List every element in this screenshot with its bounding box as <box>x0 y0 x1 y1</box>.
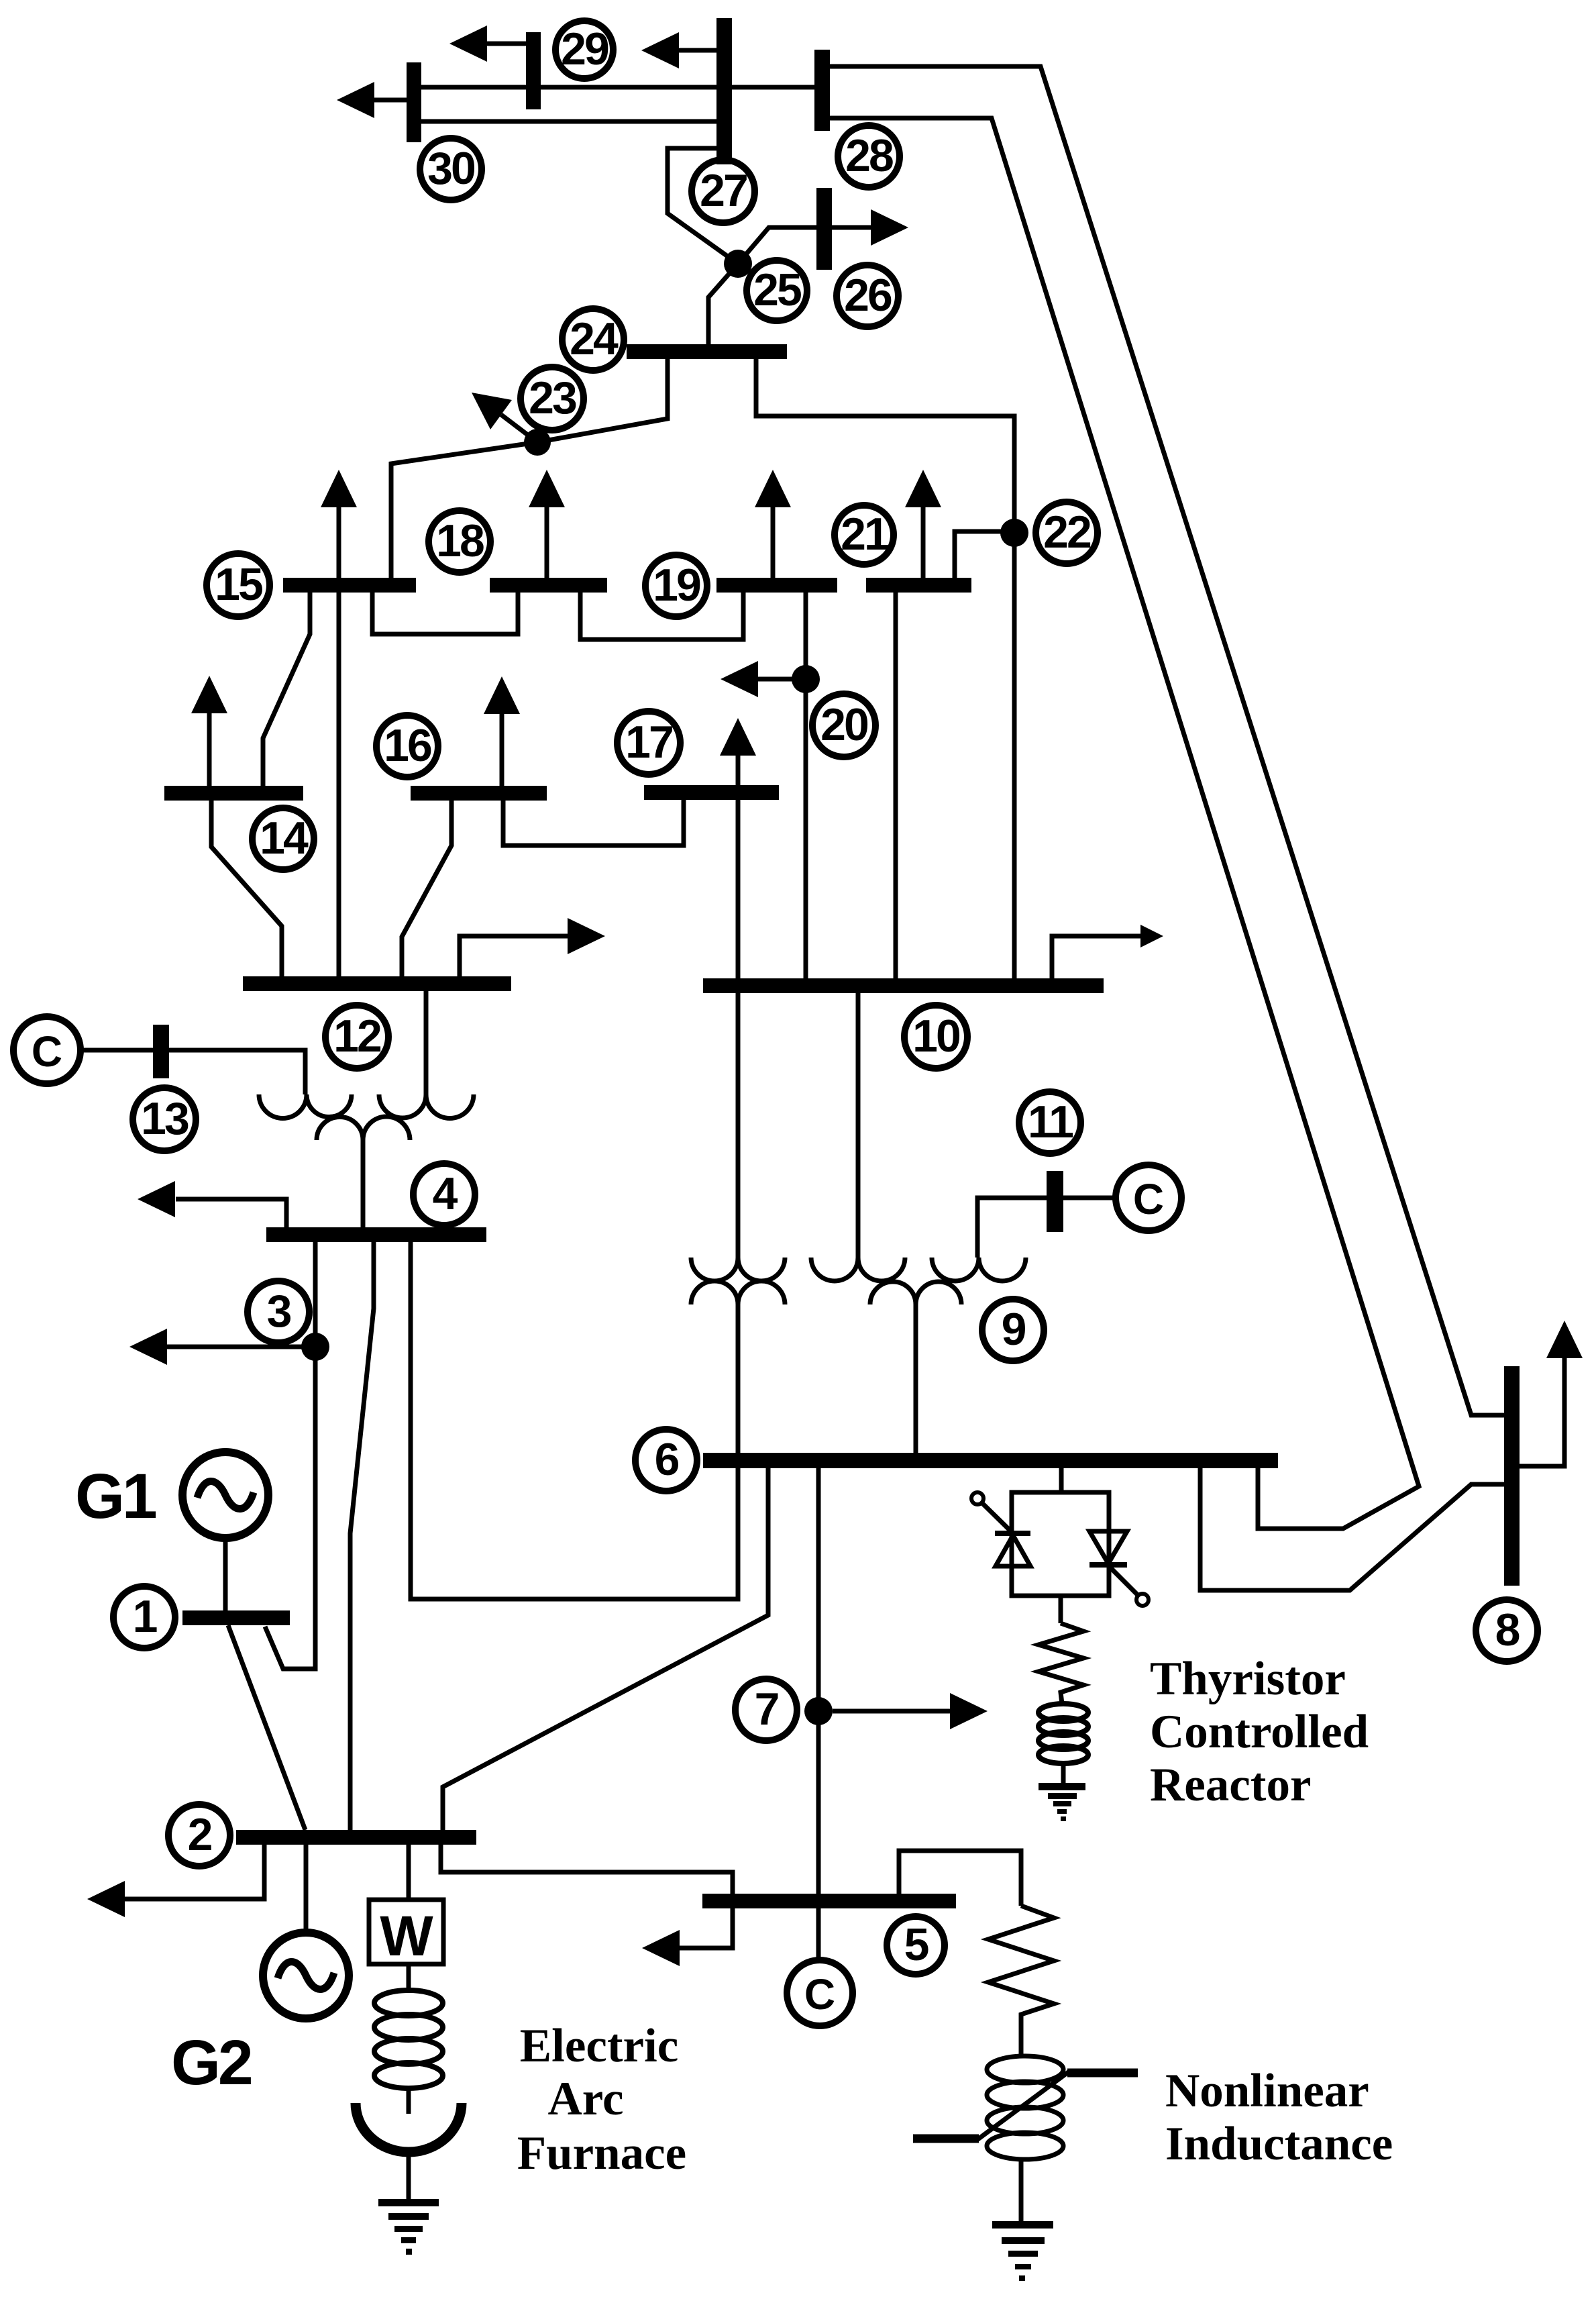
transformer T12 top-left winding <box>259 1094 352 1119</box>
NL coil (nonlinear inductance) <box>987 2056 1063 2083</box>
svg-text:G1: G1 <box>75 1461 156 1532</box>
capacitor plate 13 <box>153 1025 169 1078</box>
capacitor 11 branch <box>977 1198 1047 1258</box>
wire 30-27 line <box>421 119 717 124</box>
node 25 <box>724 250 752 278</box>
node label 2 <box>168 1804 230 1866</box>
bus 5 <box>702 1894 956 1908</box>
svg-text:21: 21 <box>841 509 888 560</box>
node label 21 <box>835 505 894 564</box>
svg-text:8: 8 <box>1495 1604 1520 1655</box>
svg-text:22: 22 <box>1043 507 1091 558</box>
node 3 <box>301 1333 329 1361</box>
wire 28 to bus 8 <box>830 66 1504 1415</box>
wire bus 24 to node 22 and bus 10 <box>756 359 1014 978</box>
svg-text:20: 20 <box>820 699 868 750</box>
node label 9 <box>982 1299 1044 1361</box>
transformer T12 bottom winding <box>317 1117 410 1140</box>
wire bowl to ground <box>407 2151 411 2202</box>
svg-text:24: 24 <box>570 313 619 364</box>
svg-text:G2: G2 <box>171 2027 252 2098</box>
load arrow bus 26 <box>832 225 871 230</box>
node label 25 <box>747 260 807 321</box>
node label 19 <box>645 555 707 617</box>
node label 29 <box>555 21 613 79</box>
load arrow bus 17 <box>736 756 741 785</box>
TCR box <box>1012 1492 1109 1596</box>
wire line 23 (bus 24 to bus 15) <box>391 359 668 578</box>
transformer T10 top windings <box>691 1258 785 1281</box>
node label 17 <box>617 711 680 774</box>
load arrow node 3 <box>166 1345 303 1349</box>
node label 30 <box>420 138 482 200</box>
node label 15 <box>207 554 270 617</box>
svg-text:Arc: Arc <box>547 2073 623 2125</box>
bus 15 <box>283 578 416 593</box>
load arrow bus 21 <box>921 507 926 578</box>
load arrow bus 8 <box>1520 1358 1564 1466</box>
load arrow bus 19 <box>771 507 776 578</box>
thyristor left (TCR) <box>995 1531 1030 1536</box>
node label 6 <box>635 1429 697 1491</box>
svg-text:26: 26 <box>844 270 892 321</box>
wire 15-14 <box>263 593 310 786</box>
wire 28 to bus 6 <box>830 118 1419 1529</box>
arrow at node 23 <box>501 415 537 442</box>
arrow at node 20 <box>758 677 795 682</box>
node label 24 <box>562 309 624 370</box>
bus 8 <box>1504 1366 1520 1586</box>
load arrow bus 30 <box>373 98 409 103</box>
wire 30-27-28 line <box>421 85 814 90</box>
generator G2 <box>304 1845 309 1933</box>
wire 18-19 <box>580 593 743 639</box>
svg-text:C: C <box>1133 1175 1164 1223</box>
svg-text:9: 9 <box>1002 1304 1026 1355</box>
node label 12 <box>325 1005 388 1068</box>
bus 16 <box>411 786 547 801</box>
load arrow bus 4 <box>176 1199 286 1227</box>
wire bus 21 to node 22 <box>955 531 1014 578</box>
node label 13 <box>133 1088 196 1151</box>
bus 30 <box>407 62 421 142</box>
node label 8 <box>1476 1600 1538 1661</box>
svg-text:W: W <box>380 1904 433 1967</box>
bus 10 <box>703 978 1104 993</box>
svg-text:14: 14 <box>260 813 309 864</box>
svg-text:Controlled: Controlled <box>1150 1706 1369 1758</box>
svg-text:25: 25 <box>753 264 801 315</box>
wire 4-2 <box>350 1242 374 1830</box>
svg-text:10: 10 <box>912 1011 960 1062</box>
svg-text:3: 3 <box>267 1286 291 1337</box>
svg-text:5: 5 <box>904 1919 928 1970</box>
svg-text:Nonlinear: Nonlinear <box>1165 2065 1369 2117</box>
bus 4 <box>266 1227 486 1242</box>
NL strike line <box>913 2135 979 2143</box>
wattmeter W <box>407 1845 411 1900</box>
wire 2-6 <box>443 1467 768 1830</box>
capacitor C5 <box>816 1908 821 1960</box>
svg-text:4: 4 <box>433 1168 458 1219</box>
load arrow bus 27 <box>678 48 716 53</box>
svg-text:Reactor: Reactor <box>1150 1759 1311 1811</box>
wire coil to arc electrode <box>407 2088 411 2114</box>
bus 6 <box>703 1453 1278 1468</box>
TCR reactor coil <box>1039 1704 1088 1721</box>
node 23 <box>524 429 551 456</box>
wire 16-12 <box>402 801 451 976</box>
svg-text:7: 7 <box>755 1684 778 1735</box>
svg-text:Inductance: Inductance <box>1165 2118 1393 2170</box>
bus 1 <box>182 1610 290 1625</box>
bus 18 <box>490 578 607 593</box>
wire 16-17 <box>503 800 684 846</box>
node label 20 <box>812 694 875 757</box>
wire 4-3-1 <box>265 1242 315 1669</box>
wire 6-7-5 <box>816 1467 821 1894</box>
bus 2 <box>236 1830 476 1845</box>
capacitor C11 circle <box>1116 1165 1181 1231</box>
node label 18 <box>429 511 490 572</box>
node label 4 <box>413 1164 475 1225</box>
wire 21-10 <box>894 593 898 978</box>
svg-text:Electric: Electric <box>520 2020 679 2072</box>
load arrow bus 29 <box>486 42 529 46</box>
arc furnace bowl <box>356 2103 462 2152</box>
wire 6-8 <box>1200 1468 1504 1590</box>
node label 26 <box>837 265 898 327</box>
wire NL coil to ground <box>1019 2159 1024 2222</box>
svg-text:16: 16 <box>384 720 431 771</box>
wire 4-6 <box>411 1242 738 1599</box>
node label 3 <box>248 1281 309 1343</box>
load arrow bus 5 <box>679 1908 733 1948</box>
wire bus 27 to node 25 <box>668 148 738 264</box>
ground (arc furnace) <box>378 2199 439 2206</box>
wire node 25 to bus 26 <box>738 227 816 264</box>
node label 28 <box>838 125 900 187</box>
load arrow node 7 <box>833 1709 951 1714</box>
arc furnace coil <box>407 1964 411 1992</box>
svg-text:27: 27 <box>700 165 747 216</box>
bus 19 <box>716 578 837 593</box>
node label 16 <box>376 715 438 777</box>
wire 17-10 <box>736 800 741 978</box>
wires transformer T10 to bus 6 <box>736 1304 741 1453</box>
wire TCR box to resistor <box>1059 1596 1063 1623</box>
svg-text:12: 12 <box>333 1011 381 1062</box>
transformer T10 bottom windings <box>691 1281 785 1304</box>
node 7 <box>804 1697 833 1725</box>
wire 15-12 <box>337 593 341 976</box>
svg-text:28: 28 <box>845 130 893 181</box>
wire C13 to plate <box>81 1048 153 1053</box>
node label 22 <box>1036 502 1098 564</box>
node label 10 <box>904 1005 967 1068</box>
ground (NL) <box>992 2221 1053 2229</box>
node label 1 <box>113 1586 175 1648</box>
load arrow bus 14 <box>207 713 212 786</box>
svg-text:11: 11 <box>1028 1096 1073 1147</box>
svg-text:17: 17 <box>625 717 672 768</box>
bus 12 <box>243 976 511 991</box>
node label 23 <box>521 367 584 430</box>
wire 1-2 <box>228 1625 305 1830</box>
wire bus 6 to TCR <box>1059 1468 1064 1492</box>
bus 21 <box>866 578 971 593</box>
svg-text:Thyristor: Thyristor <box>1150 1653 1346 1705</box>
NL resistor <box>988 1906 1054 2056</box>
wire 15-18 <box>372 593 518 634</box>
load arrow bus 12 <box>460 936 568 976</box>
svg-text:2: 2 <box>188 1809 212 1860</box>
svg-text:29: 29 <box>561 23 608 74</box>
node 20 <box>792 665 820 693</box>
TCR damping resistor <box>1039 1623 1083 1704</box>
bus 26 <box>816 188 832 270</box>
thyristor right (TCR) <box>1089 1531 1127 1564</box>
svg-text:15: 15 <box>215 559 262 610</box>
wire 14-12 <box>211 801 282 976</box>
svg-text:6: 6 <box>655 1434 679 1485</box>
node label 14 <box>252 808 314 870</box>
node 22 <box>1000 519 1028 547</box>
wire 2-5 <box>441 1845 733 1894</box>
node label 27 <box>692 160 755 223</box>
capacitor C13 circle <box>13 1017 81 1084</box>
svg-text:23: 23 <box>529 372 576 423</box>
bus 24 <box>627 344 787 359</box>
wire bus 5 to nonlinear inductance <box>899 1851 1021 1906</box>
node label 11 <box>1019 1092 1081 1154</box>
svg-text:13: 13 <box>141 1093 189 1144</box>
load arrow bus 16 <box>500 714 504 786</box>
svg-text:18: 18 <box>436 515 484 566</box>
transformer T12 top-right winding <box>424 991 429 1094</box>
wire TCR coil to ground <box>1061 1763 1066 1785</box>
bus 27 <box>716 18 732 164</box>
svg-text:1: 1 <box>133 1591 157 1642</box>
svg-text:Furnace: Furnace <box>517 2127 686 2180</box>
node label 5 <box>887 1916 945 1974</box>
capacitor plate 11 <box>1047 1171 1063 1232</box>
svg-text:30: 30 <box>427 143 475 194</box>
svg-text:19: 19 <box>653 560 700 611</box>
svg-text:C: C <box>804 1970 835 2018</box>
bus 29 <box>526 32 541 109</box>
wire 19-10 (line 20) <box>804 593 808 978</box>
ground (TCR) <box>1039 1783 1085 1790</box>
wires bus 10 to transformer T10 <box>736 993 741 1258</box>
wire node 25 to bus 24 <box>708 264 738 344</box>
wire plate 11 to C circle <box>1063 1196 1116 1200</box>
load arrow bus 10 <box>1052 936 1140 978</box>
load arrow bus 15 <box>337 507 341 578</box>
node label 7 <box>735 1679 797 1741</box>
load arrow bus 2 <box>166 1845 264 1899</box>
svg-text:C: C <box>32 1027 62 1076</box>
load arrow bus 18 <box>545 507 549 578</box>
wire plate 13 to transformer <box>169 1050 305 1094</box>
bus 28 <box>814 50 830 131</box>
bus 14 <box>164 786 303 801</box>
bus 17 <box>644 785 779 800</box>
